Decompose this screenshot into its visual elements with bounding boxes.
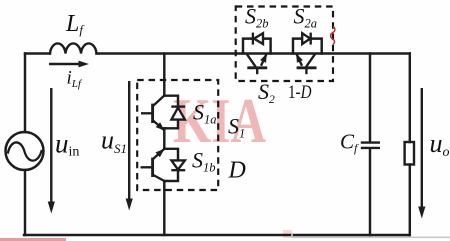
svg-text:Cf: Cf xyxy=(340,130,359,156)
grey line bottom-right xyxy=(292,233,450,237)
wire S2b diode branch xyxy=(243,39,271,54)
arrow u_S1 xyxy=(126,81,133,211)
svg-text:S2b: S2b xyxy=(245,4,269,31)
wire left vertical lower xyxy=(24,170,26,235)
diode of S2b xyxy=(253,33,263,45)
svg-text:uo: uo xyxy=(430,129,450,160)
svg-text:1-D: 1-D xyxy=(288,83,312,103)
wire S2a diode branch xyxy=(293,39,322,54)
wire between S1a and S1b xyxy=(163,128,165,149)
arrow i_Lf xyxy=(49,61,89,68)
resistor load xyxy=(405,142,414,165)
svg-text:S2: S2 xyxy=(258,79,275,106)
wire left vertical upper xyxy=(24,54,26,133)
dashed box S2 xyxy=(236,7,333,82)
wire capacitor bottom xyxy=(369,148,371,235)
wire load top xyxy=(409,54,411,143)
watermark KIA xyxy=(173,85,266,156)
svg-text:KIA: KIA xyxy=(173,85,266,156)
transistor S2a xyxy=(297,54,317,74)
red marker squiggle xyxy=(331,27,335,45)
wire top-left horizontal xyxy=(25,52,50,54)
wire S1a diode branch xyxy=(164,96,178,129)
wire S1b diode branch xyxy=(164,149,178,181)
diode of S2a xyxy=(302,33,311,45)
svg-text:iLf: iLf xyxy=(67,68,83,91)
wire middle drop to S1 xyxy=(163,54,165,96)
svg-text:D: D xyxy=(228,158,246,184)
capacitor Cf xyxy=(361,143,380,148)
svg-text:Lf: Lf xyxy=(65,11,85,37)
transistor S1b xyxy=(141,149,165,181)
arrow u_o xyxy=(418,88,425,219)
inductor Lf xyxy=(50,43,97,53)
diode of S1b xyxy=(171,160,185,170)
wire load bottom xyxy=(409,165,411,236)
wire S1 to bottom xyxy=(163,181,165,235)
svg-text:uS1: uS1 xyxy=(101,126,127,157)
wire bottom main xyxy=(24,234,409,236)
dashed box S1 xyxy=(137,80,218,190)
wire top main xyxy=(97,52,410,54)
watermark fragment bottom-middle xyxy=(283,230,292,238)
arrow u_in xyxy=(48,88,55,214)
svg-text:uin: uin xyxy=(55,129,79,160)
transistor S1a xyxy=(141,96,164,131)
diode of S1a xyxy=(171,107,185,120)
wire capacitor top xyxy=(369,54,371,143)
AC source U_in xyxy=(6,132,44,170)
watermark fragment bottom-left xyxy=(0,238,66,241)
transistor S2b xyxy=(247,54,268,74)
